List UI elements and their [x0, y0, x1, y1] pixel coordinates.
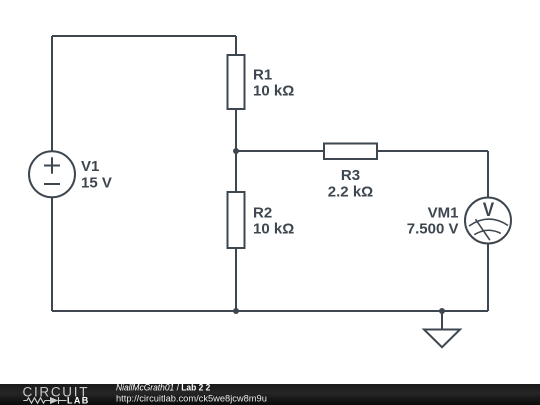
label VM1 [407, 204, 459, 237]
resistor R2 [228, 192, 245, 248]
logo resistor zigzag + diode [23, 397, 66, 404]
label R2 [253, 204, 294, 237]
svg-text:LAB: LAB [67, 396, 90, 405]
svg-text:2.2 kΩ: 2.2 kΩ [328, 183, 373, 200]
label R3 [328, 167, 373, 200]
label R1 [253, 67, 294, 100]
footer bar [0, 384, 540, 405]
ground [424, 330, 460, 348]
wire VM1 bottom lead [487, 244, 489, 312]
wire R1 bottom to R2 top [235, 109, 237, 192]
svg-text:V1: V1 [81, 158, 99, 175]
wire R1 top lead [235, 36, 237, 55]
voltmeter VM1 [465, 198, 511, 244]
svg-text:10 kΩ: 10 kΩ [253, 83, 294, 100]
voltage source V1 [29, 151, 75, 197]
wire top horizontal [52, 35, 236, 37]
wire R3 to VM1 branch [377, 150, 488, 152]
svg-text:R2: R2 [253, 204, 272, 221]
schematic wires and parts, stroke color [29, 36, 511, 347]
svg-text:NiallMcGrath01 / Lab 2 2: NiallMcGrath01 / Lab 2 2 [116, 382, 210, 392]
svg-text:R1: R1 [253, 67, 272, 84]
wire node A to R3 [236, 150, 324, 152]
wire R2 bottom lead [235, 248, 237, 311]
footer credit text [116, 382, 267, 403]
wire VM1 top lead [487, 151, 489, 198]
resistor R3 [324, 144, 377, 160]
label V1 [81, 158, 112, 191]
svg-text:http://circuitlab.com/ck5we8jc: http://circuitlab.com/ck5we8jcw8m9u [116, 393, 267, 403]
wire left vertical (bottom of V1) [51, 197, 53, 311]
wire bottom horizontal [52, 310, 488, 312]
node A junction dot (R1/R2/R3) [233, 148, 239, 154]
svg-text:R3: R3 [341, 167, 360, 184]
svg-text:10 kΩ: 10 kΩ [253, 220, 294, 237]
resistor R1 [228, 55, 245, 109]
junction dot ground [439, 308, 445, 314]
svg-text:VM1: VM1 [428, 204, 459, 221]
wire ground stub [441, 311, 443, 330]
wire left vertical (top of V1) [51, 36, 53, 151]
svg-text:7.500 V: 7.500 V [407, 220, 459, 237]
svg-text:V: V [483, 199, 494, 220]
CircuitLab logo [23, 385, 90, 405]
svg-text:15 V: 15 V [81, 174, 112, 191]
junction dot bottom R2 [233, 308, 239, 314]
